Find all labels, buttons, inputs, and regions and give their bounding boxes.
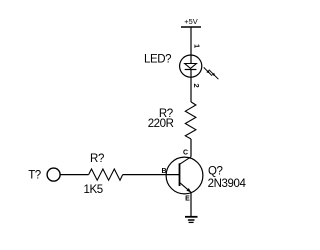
- svg-text:E: E: [185, 196, 190, 203]
- svg-text:1: 1: [192, 44, 201, 48]
- svg-text:T?: T?: [28, 169, 41, 181]
- resistor R? 1K5: [89, 169, 123, 180]
- ground: [185, 217, 198, 223]
- power +5V: [181, 17, 201, 27]
- svg-text:LED?: LED?: [144, 54, 171, 66]
- wire R 220R to collector node: [190, 139, 192, 157]
- svg-text:2: 2: [192, 84, 201, 88]
- svg-text:220R: 220R: [148, 118, 174, 130]
- svg-text:B: B: [161, 168, 166, 175]
- svg-text:+5V: +5V: [184, 17, 197, 26]
- wire +5V to LED anode: [190, 27, 192, 64]
- svg-text:Q?: Q?: [208, 165, 223, 177]
- wire R 1K5 to base: [123, 174, 180, 176]
- svg-text:R?: R?: [90, 153, 104, 165]
- transistor Q? 2N3904: [166, 157, 203, 194]
- wire LED cathode to R 220R: [190, 70, 192, 103]
- svg-text:C: C: [183, 150, 188, 157]
- wire terminal to R 1K5: [60, 174, 88, 176]
- wire emitter to ground: [190, 192, 192, 217]
- LED LED?: [180, 55, 219, 79]
- terminal T?: [28, 168, 60, 181]
- svg-text:2N3904: 2N3904: [208, 178, 247, 190]
- resistor R? 220R: [185, 102, 196, 139]
- svg-text:1K5: 1K5: [84, 184, 103, 196]
